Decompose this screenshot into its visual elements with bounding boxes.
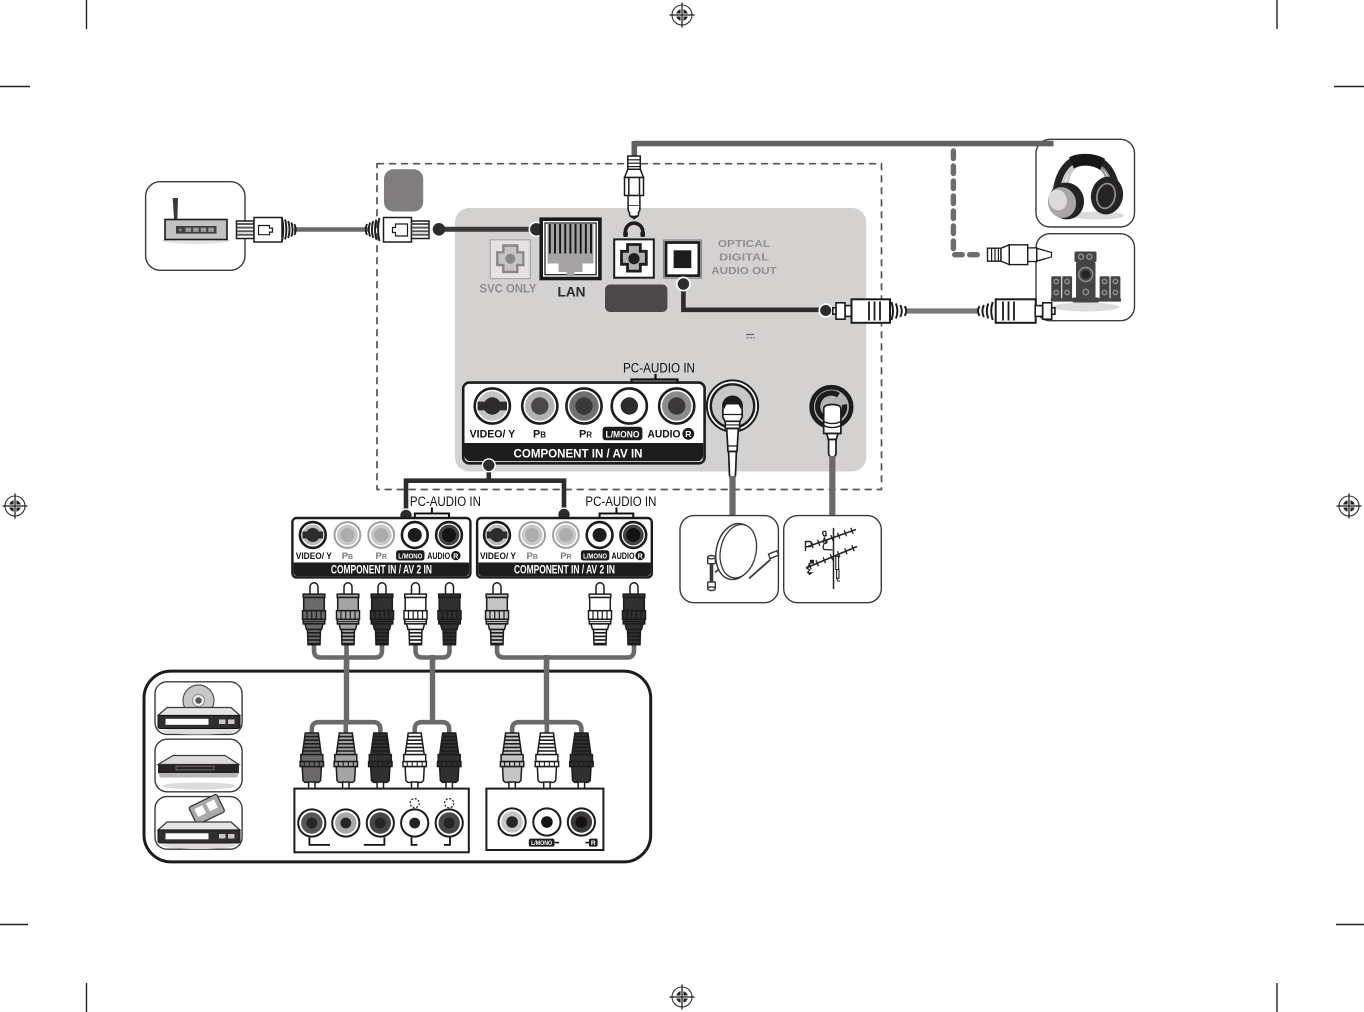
svg-text:DIGITAL: DIGITAL [719, 252, 770, 264]
svg-text:VIDEO/ Y: VIDEO/ Y [480, 551, 517, 562]
svg-text:SVC ONLY: SVC ONLY [480, 282, 537, 296]
svg-text:R: R [591, 840, 596, 847]
svg-text:R: R [638, 553, 643, 560]
svg-text:LAN: LAN [558, 284, 586, 300]
svg-text:VIDEO/ Y: VIDEO/ Y [470, 429, 516, 441]
svg-text:COMPONENT IN / AV 2 IN: COMPONENT IN / AV 2 IN [331, 563, 432, 577]
svg-text:L/MONO: L/MONO [398, 551, 422, 560]
svg-text:COMPONENT IN / AV 2 IN: COMPONENT IN / AV 2 IN [514, 563, 615, 577]
svg-text:AUDIO: AUDIO [612, 551, 635, 562]
svg-text:PB: PB [533, 429, 546, 441]
svg-text:PR: PR [579, 429, 592, 441]
svg-text:L/MONO: L/MONO [531, 840, 552, 847]
svg-text:VIDEO/ Y: VIDEO/ Y [296, 551, 333, 562]
svg-text:R: R [685, 429, 691, 439]
svg-text:AUDIO: AUDIO [648, 429, 681, 441]
svg-text:L/MONO: L/MONO [583, 551, 607, 560]
svg-text:PC-AUDIO IN: PC-AUDIO IN [585, 494, 656, 509]
svg-text:COMPONENT IN / AV IN: COMPONENT IN / AV IN [514, 446, 643, 460]
svg-text:L/MONO: L/MONO [606, 429, 640, 440]
svg-text:PC-AUDIO IN: PC-AUDIO IN [410, 494, 481, 509]
svg-text:AUDIO: AUDIO [427, 551, 450, 562]
svg-text:OPTICAL: OPTICAL [718, 238, 771, 250]
svg-text:R: R [453, 553, 458, 560]
svg-text:AUDIO OUT: AUDIO OUT [711, 265, 777, 277]
svg-text:PC-AUDIO IN: PC-AUDIO IN [623, 361, 695, 376]
